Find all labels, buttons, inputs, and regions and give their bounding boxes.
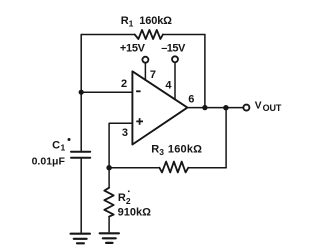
wire junction up to pin 3	[109, 123, 132, 167]
op-amp plus sign	[136, 118, 143, 125]
wire inverting input to pin 2	[81, 91, 132, 93]
svg-text:160kΩ: 160kΩ	[139, 15, 172, 27]
terminal -15V circle	[172, 56, 178, 62]
node junction R3 branch/output	[223, 105, 228, 110]
capacitor C1	[71, 152, 90, 158]
label C1 asterisk	[68, 138, 71, 141]
svg-text:R: R	[121, 15, 129, 27]
wire R3 left segment to junction	[109, 167, 159, 169]
wire R2 to ground	[108, 217, 110, 232]
svg-text:910kΩ: 910kΩ	[118, 206, 151, 218]
wire junction down to R2	[108, 168, 110, 188]
node junction pin3/R2/R3	[106, 165, 111, 170]
wire capacitor to ground	[80, 159, 82, 233]
node junction inverting input	[79, 90, 84, 95]
svg-text:7: 7	[150, 69, 156, 81]
svg-text:OUT: OUT	[263, 103, 282, 113]
wire pin 4 supply	[174, 63, 176, 100]
svg-text:2: 2	[126, 196, 131, 206]
terminal VOUT circle	[243, 105, 249, 111]
svg-text:4: 4	[165, 80, 172, 92]
svg-text:V: V	[255, 100, 262, 111]
wire top feedback left segment	[81, 34, 135, 36]
resistor R1	[135, 30, 163, 39]
svg-text:R: R	[118, 192, 126, 204]
wire top feedback right segment	[163, 34, 205, 36]
svg-text:+15V: +15V	[120, 43, 146, 55]
op-amp minus sign	[136, 90, 141, 92]
label R2 tick mark	[128, 190, 130, 192]
resistor R3	[159, 162, 188, 173]
wire feedback right vertical	[204, 35, 206, 108]
wire R3 branch vertical	[225, 108, 227, 168]
svg-text:C: C	[52, 139, 60, 151]
svg-text:0.01μF: 0.01μF	[32, 155, 66, 167]
svg-text:1: 1	[129, 19, 134, 29]
svg-text:2: 2	[121, 78, 127, 90]
wire output from pin 6	[187, 107, 243, 109]
svg-text:–15V: –15V	[161, 42, 186, 54]
svg-text:1: 1	[61, 143, 66, 153]
wire R3 right segment	[188, 167, 226, 169]
terminal +15V circle	[142, 57, 148, 63]
svg-text:R: R	[151, 143, 159, 155]
svg-text:6: 6	[188, 93, 194, 105]
svg-text:3: 3	[122, 127, 128, 139]
ground below C1	[71, 234, 90, 244]
resistor R2	[104, 188, 113, 217]
op-amp U1	[132, 71, 187, 144]
wire pin 7 supply	[144, 63, 146, 80]
svg-text:160kΩ: 160kΩ	[168, 143, 202, 155]
ground below R2	[100, 233, 119, 243]
node junction feedback/output	[202, 105, 207, 110]
svg-text:3: 3	[159, 147, 164, 157]
wire left vertical from top corner down to capacitor	[80, 35, 82, 152]
